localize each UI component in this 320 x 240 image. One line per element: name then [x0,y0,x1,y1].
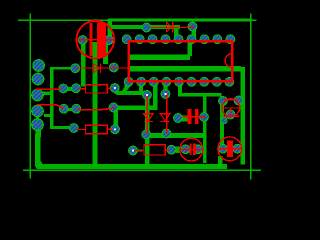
wire VDD bottom elbow [50,126,70,129]
wire red PL3 [36,88,61,90]
diode D2 wire [75,67,128,69]
capacitor C3 thick bar [193,144,196,156]
wire GND thick bottom [37,164,227,169]
resistor R4 body [86,125,108,134]
resistor R4 stubs [77,128,86,130]
wire VDD to PL4 [44,114,52,117]
node W2 pad [109,103,118,112]
wire trace to capB horizontal [178,93,221,97]
wire capB left tail [218,156,223,165]
wire GND thick vertical [35,134,41,164]
diode D3 bottom pad [142,130,151,139]
wire R5 right stub [176,147,180,153]
node row C pad left [59,104,68,113]
diode D3 triangle [143,114,153,121]
capacitor C2 right pad [200,113,209,122]
node wire-end white dots [114,87,167,152]
diode D1 triangle [167,22,172,31]
wire T1 inside DIP [128,55,190,60]
capacitor C1 circle [77,21,115,59]
wire cap minus down [81,42,86,87]
capacitor C2 left pad [174,114,183,123]
wire red PL4 [37,105,64,109]
wire W2 down leg [113,108,118,126]
diode D1 wire [151,26,193,28]
diode D1 pad cathode [188,22,197,31]
transistor Q1 pad2 [234,96,243,105]
diode D4 top pad [161,90,170,99]
capacitor C1 pad minus [78,36,87,45]
diode D2 pad cathode [109,63,118,72]
node wire-end red dots [112,25,231,118]
transistor Q1 outline [222,99,240,117]
board outline right [250,13,252,179]
via under Q1 [221,117,228,124]
diode D2 bar [99,63,101,73]
diode D3 wire [146,95,148,134]
node W1 pad [143,91,152,100]
wire row3 p2 stub [139,83,143,92]
IC U1 outline right [231,40,234,82]
IC U1 outline left [127,40,130,82]
wire D4 bottom stub [164,129,169,135]
IC U1 row1 pads [122,35,235,44]
board outline top [18,19,257,21]
resistor R5 stubs [134,150,144,152]
wire top rail A [108,18,251,21]
diode D1 bar [172,22,174,33]
wire VDD to PL3 [42,92,52,95]
diode D3 bar [144,120,153,122]
diode D4 wire [166,94,168,134]
capacitor C1 wire line [77,39,113,41]
transistor Q1 cross [222,107,239,109]
wire mid horizontal row C east [114,105,158,110]
wire red row C [77,109,112,110]
capacitor C3 right pad [194,145,203,154]
node row C pad mid [72,104,81,113]
connector pad PL4 [32,105,44,117]
resistor R2 body [86,85,108,93]
resistor R5 left pad [129,146,138,155]
board outline left [30,13,32,178]
board outline bottom [23,170,261,172]
resistor R5 body [144,145,165,155]
wire row B stub [67,87,72,91]
wire row3 p5 elbow up [178,84,182,95]
IC U1 row3 pads [124,77,234,86]
capacitor C3 left pad [181,145,190,154]
resistor R2 stubs [79,88,86,90]
transistor Q1 pad1 [219,97,228,106]
dimension cross top-right [250,13,252,26]
resistor R2 right pad [110,84,119,93]
wire GND corner bevel [35,161,44,169]
wire bottom center horizontal [147,133,207,138]
connector pad PL2 [32,73,44,85]
wire V3 short vertical [103,43,108,64]
wire W1 down vertical [145,95,150,165]
node row B pad mid [72,84,81,93]
wire VDD vertical [50,67,54,129]
resistor R4 right pad [111,125,120,134]
wire T2 down right side [240,67,245,165]
wire VDD top elbow to D2 [50,67,72,70]
diode D4 triangle [160,114,170,121]
wire diag rowB pad to center [112,89,125,96]
wire T1 up leg [187,42,192,56]
wire PL5 down stub [36,130,41,137]
diode D4 bar [161,120,170,122]
capacitor C3 wire [181,149,202,151]
dimension cross bottom-right [250,166,252,180]
diode D1 pad anode [142,23,151,32]
capacitor C4 bar [227,141,233,157]
dimension cross bottom-left [23,170,37,172]
capacitor C4 left pad [219,144,228,153]
wire V2 long vertical [92,42,97,167]
capacitor C4 circle [218,137,242,161]
IC U1 notch [225,54,232,68]
wire row3 p1 stub diag [122,82,131,92]
resistor R4 left pad [69,124,78,133]
transistor Q1 pad3 [226,110,235,119]
capacitor C2 wire [183,116,204,118]
capacitor C4 wire [218,148,242,150]
wire T2 inside DIP [128,66,241,71]
capacitor C1 thin bar [90,23,93,56]
wire stub pad top to row1 pad6 [192,28,196,38]
IC U1 outline top [127,40,233,43]
wire rail B [110,25,180,29]
dimension cross top-left [30,13,32,25]
wire PL4-PL5 stub [36,116,39,121]
diode D2 pad anode [71,64,80,73]
wire padC stub [182,116,189,122]
wire cap plus stub [107,19,112,37]
connector pad PL5 [32,119,44,131]
capacitor C4 right pad [233,144,242,153]
wire elbow up to row3 p3 [153,84,157,108]
wire row3 p4 stub down to padB [163,84,167,91]
wire center horizontal to W1 [121,91,150,95]
diode D2 triangle [93,64,99,73]
capacitor C1 pad plus [105,36,114,45]
IC U1 outline bottom [127,80,233,83]
capacitor C2 bar2 [195,109,199,124]
wire row C stub [67,108,74,111]
resistor R5 right pad [167,145,176,154]
capacitor C3 thin bar [190,144,192,156]
capacitor C3 circle [180,138,203,161]
wire capB left down leg [220,96,224,149]
capacitor C1 thick bar [97,22,106,57]
connector pad PL3 [32,89,44,101]
capacitor C2 bar1 [188,109,192,124]
wire T junction vertical x204 [203,96,207,163]
wire rail B elbow down to row1 pad5 [174,26,179,38]
node row B pad left [59,84,68,93]
connector pad PL1 [33,60,45,72]
diode D4 bottom pad [162,129,171,138]
wire R5 left stub [135,149,143,151]
